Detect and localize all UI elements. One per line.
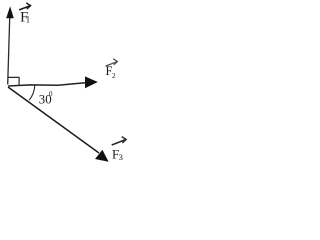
angle arc: [29, 85, 35, 100]
force vector F1 arrowhead: [6, 6, 14, 18]
svg-text:0: 0: [49, 90, 53, 98]
force vector F3 shaft: [8, 87, 99, 153]
svg-text:3: 3: [119, 152, 123, 162]
svg-text:2: 2: [112, 71, 116, 80]
force vector F2 arrowhead: [85, 76, 98, 88]
label F2 vector arrow: [106, 59, 118, 66]
force vector F2 shaft: [8, 83, 85, 86]
right-angle marker: [8, 77, 19, 84]
svg-text:1: 1: [26, 14, 31, 24]
force vector F1 shaft: [8, 18, 10, 85]
label F3 vector arrow: [112, 137, 127, 145]
label F1 vector arrow: [19, 3, 30, 10]
force vector F3 arrowhead: [95, 150, 109, 162]
